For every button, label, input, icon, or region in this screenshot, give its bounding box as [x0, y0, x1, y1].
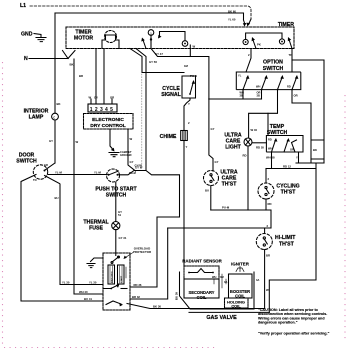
svg-text:GY: GY — [215, 160, 219, 164]
option switch contact b — [262, 78, 267, 90]
svg-text:BK 60: BK 60 — [228, 10, 236, 14]
svg-text:OPTION: OPTION — [263, 60, 283, 66]
motor centrifugal switch — [104, 285, 118, 289]
svg-text:dangerous operation.": dangerous operation." — [258, 321, 298, 325]
motor main winding — [108, 265, 115, 284]
svg-text:BU 39: BU 39 — [175, 292, 179, 300]
wire ultra care light to temp switch — [252, 142, 266, 144]
svg-text:OR: OR — [110, 96, 114, 100]
thermostat cycling — [258, 183, 274, 199]
svg-text:C: C — [53, 115, 55, 119]
svg-text:YL-M: YL-M — [55, 171, 63, 175]
thermostat hi-limit — [256, 234, 272, 250]
svg-text:BR 32: BR 32 — [132, 295, 140, 299]
svg-text:YL 30: YL 30 — [89, 281, 97, 285]
temp switch contact b — [284, 140, 288, 152]
svg-text:MOTOR: MOTOR — [74, 36, 93, 42]
svg-text:W: W — [193, 45, 196, 49]
wire top horizontal from corner to timer terminal — [55, 13, 244, 20]
wire tee y99 to option switch pin b — [209, 98, 262, 100]
svg-text:W: W — [89, 96, 92, 100]
gas valve outline — [180, 272, 255, 309]
svg-text:3B: 3B — [240, 94, 243, 98]
svg-text:PU-M: PU-M — [222, 206, 230, 210]
wire pins from timer down to control connector — [96, 49, 104, 105]
svg-text:YL 60: YL 60 — [228, 18, 236, 22]
svg-text:SWITCH: SWITCH — [16, 159, 37, 165]
svg-text:WH 40: WH 40 — [79, 290, 88, 294]
svg-text:LAMP: LAMP — [29, 115, 44, 121]
svg-text:TH'ST: TH'ST — [281, 190, 297, 196]
svg-text:N: N — [24, 56, 28, 62]
wire chime down to radiant sensor — [183, 141, 185, 267]
svg-text:3A: 3A — [256, 278, 259, 282]
option switch feed wires from timer — [246, 49, 251, 73]
svg-text:3M: 3M — [220, 275, 224, 279]
timer contact arrow right of terminal 6 — [289, 40, 292, 49]
motor heater contact — [106, 301, 121, 305]
wire from top-left corner to interior lamp and door switch (x55) — [54, 13, 56, 113]
svg-text:RD: RD — [243, 154, 247, 158]
wire hi-limit bottom down right side of gas valve — [264, 250, 266, 309]
wire cycling thermostat top — [265, 169, 267, 184]
wire option pin c to ultra care light and temp switch — [249, 90, 278, 138]
wire BK36 motor to gas valve bottom — [127, 304, 265, 309]
wire door switch to push-to-start (y175) — [48, 174, 107, 176]
svg-text:WH: WH — [268, 147, 272, 151]
svg-text:IGNITER: IGNITER — [231, 262, 250, 267]
wire down to igniter feed x316 — [269, 163, 316, 312]
svg-text:FUSE: FUSE — [89, 226, 103, 232]
wire L1 bus (dashed, top) — [30, 6, 251, 19]
svg-text:RD: RD — [268, 138, 272, 142]
lamp interior lamp — [52, 113, 59, 120]
svg-text:BK: BK — [70, 63, 74, 67]
wire cycle signal to chime — [184, 98, 190, 131]
svg-text:PK-B: PK-B — [190, 74, 197, 78]
svg-text:W: W — [266, 288, 269, 292]
svg-text:L1: L1 — [20, 3, 26, 9]
motor assembly dashed box — [103, 253, 130, 310]
svg-text:TN: TN — [33, 178, 37, 182]
wire push-start to x180 run with jog — [119, 171, 180, 288]
timer bridge wire between terminals 5 and 6 — [246, 33, 282, 39]
wire lamp to door switch — [54, 120, 56, 163]
wire temp switch pin down right — [298, 152, 300, 163]
svg-text:TH'ST: TH'ST — [279, 242, 295, 248]
option switch contact a — [243, 78, 248, 90]
svg-text:BR: BR — [79, 74, 83, 78]
svg-text:W: W — [76, 140, 79, 144]
svg-text:PROTECTOR: PROTECTOR — [133, 250, 152, 254]
svg-text:YL: YL — [238, 74, 242, 78]
junction dot below terminal 1 — [150, 38, 152, 40]
svg-text:GY 47: GY 47 — [155, 52, 163, 56]
svg-text:LIGHT: LIGHT — [225, 145, 241, 151]
coil secondary — [184, 279, 219, 298]
svg-text:YL 30: YL 30 — [62, 281, 70, 285]
svg-text:WH 38: WH 38 — [266, 156, 275, 160]
svg-text:TEMP: TEMP — [270, 124, 285, 130]
svg-text:RD 36: RD 36 — [134, 283, 142, 287]
svg-text:MAIN WDG: MAIN WDG — [111, 271, 114, 283]
svg-text:DRY CONTROL: DRY CONTROL — [90, 123, 126, 129]
wire x167.7 down to motor BR32 — [130, 228, 168, 299]
wire right bus y163 — [296, 162, 324, 164]
svg-text:GY/W: GY/W — [135, 164, 143, 168]
svg-text:BU: BU — [205, 189, 209, 193]
svg-text:RD: RD — [287, 85, 291, 89]
svg-text:1M: 1M — [184, 64, 189, 68]
temp switch contact c — [292, 140, 297, 152]
timer cam bridge contact to terminal 3 — [160, 32, 186, 41]
svg-text:RD: RD — [268, 202, 272, 206]
svg-text:BU: BU — [55, 196, 59, 200]
svg-text:GY: GY — [49, 139, 53, 143]
wire gas valve lower bus — [189, 311, 269, 313]
svg-text:TIMER: TIMER — [278, 22, 294, 28]
wire RD36 into motor — [130, 286, 157, 288]
svg-text:12345: 12345 — [90, 107, 115, 113]
timer terminal 5 (circled) with bridge — [243, 39, 248, 44]
svg-text:RD 12: RD 12 — [283, 164, 291, 168]
ground cabinet ground symbol — [109, 153, 119, 157]
coil booster box — [229, 274, 253, 298]
timer terminal 3 (circled) — [182, 41, 188, 47]
wire hi-limit top — [264, 228, 266, 234]
connector 1 2 3 4 5 — [88, 104, 117, 112]
motor ground — [91, 258, 104, 262]
svg-text:CHIME: CHIME — [160, 134, 177, 140]
svg-text:W: W — [130, 137, 133, 141]
svg-text:TH'ST: TH'ST — [222, 182, 238, 188]
timer contact arrow right of terminal 5 — [253, 40, 256, 49]
svg-text:GY 31: GY 31 — [119, 236, 127, 240]
wire ultra care thermostat bottom — [210, 186, 212, 211]
wire N to timer motor junction — [29, 51, 75, 59]
option switch contact d — [292, 78, 297, 90]
svg-text:GND: GND — [21, 32, 33, 38]
svg-text:COIL: COIL — [197, 295, 207, 300]
junction block right of temp switch — [311, 140, 324, 159]
svg-text:WH: WH — [256, 85, 260, 89]
wire x146 from timer to push-start jog — [136, 49, 146, 171]
thermostat ultra care — [204, 171, 219, 186]
wire bus y210 PU-M — [211, 210, 271, 228]
overload protector contact — [112, 257, 119, 263]
contact arrow from L1 into timer terminal — [249, 19, 252, 25]
svg-text:OR: OR — [294, 94, 298, 98]
wire GY47 from junction 1 to cycle signal feed — [151, 41, 209, 99]
svg-text:RD-M: RD-M — [129, 171, 136, 175]
timer motor coil symbol — [105, 31, 117, 43]
svg-text:COIL: COIL — [231, 304, 241, 309]
wire option pin b stub — [261, 90, 263, 99]
svg-text:"Verify proper operation after: "Verify proper operation after servicing… — [258, 332, 330, 336]
wire door switch to left bottom run (x21) — [21, 175, 103, 302]
svg-text:GAS VALVE: GAS VALVE — [206, 315, 237, 321]
svg-text:BK 36: BK 36 — [153, 304, 161, 308]
wire BK from N junction down left side to motor (x74) — [74, 59, 103, 294]
wire from control to cabinet ground — [110, 129, 113, 150]
svg-text:W 40: W 40 — [251, 128, 258, 132]
timer terminal 1 (circled) — [148, 30, 154, 36]
temp switch contact a — [272, 140, 276, 152]
svg-text:Y: Y — [188, 102, 190, 106]
wire ultra care light down to y210 — [247, 146, 249, 210]
svg-text:GY: GY — [94, 96, 98, 100]
svg-text:3A: 3A — [224, 280, 227, 284]
option switch contact c — [278, 78, 283, 90]
coil pin stubs and labels — [214, 274, 226, 288]
wire RD12 bus y168.5 — [266, 168, 316, 170]
svg-text:SWITCH: SWITCH — [263, 66, 284, 72]
svg-text:RADIANT SENSOR: RADIANT SENSOR — [182, 259, 222, 264]
wire door switch lower contact down (x60) — [45, 176, 104, 285]
electronic dry control box — [84, 114, 134, 130]
svg-text:BU 41: BU 41 — [84, 297, 92, 301]
svg-text:Y: Y — [186, 145, 188, 149]
svg-text:HI-LIMIT: HI-LIMIT — [275, 235, 296, 241]
svg-text:ELECTRONIC: ELECTRONIC — [92, 117, 124, 123]
wire option pin a to ultra care light — [242, 90, 244, 99]
wire temp switch pin down WH38 — [271, 152, 273, 169]
radiant sensor contact — [189, 269, 213, 273]
svg-text:START: START — [120, 275, 123, 283]
svg-text:51: 51 — [118, 213, 122, 217]
timer assembly dashed box — [66, 27, 294, 49]
svg-text:RD 55: RD 55 — [256, 146, 264, 150]
wire option pin d to x311 run — [292, 90, 311, 163]
svg-text:GY: GY — [211, 127, 215, 131]
contact arrow into timer terminal 4 — [244, 20, 245, 24]
wire cycling thermostat bottom to y210 — [265, 199, 267, 210]
svg-text:Y: Y — [296, 156, 298, 160]
wire thermal fuse branch from push-start down to motor — [115, 182, 117, 253]
svg-text:YL-M: YL-M — [94, 171, 102, 175]
wire timer to ultra care thermostat (x208.5) — [209, 99, 213, 171]
wire bus y228 from motor to hi-limit — [168, 227, 271, 229]
svg-text:GY: GY — [130, 160, 134, 164]
svg-text:BR: BR — [266, 254, 270, 258]
wire ghost dashed x141.8 — [141, 74, 143, 165]
timer terminal 6 (circled) — [279, 39, 284, 44]
switch cycle signal — [182, 76, 196, 98]
svg-text:WH: WH — [212, 275, 216, 279]
svg-text:3B: 3B — [257, 94, 260, 98]
svg-text:PK: PK — [257, 43, 261, 47]
svg-text:SIGNAL: SIGNAL — [161, 92, 181, 98]
svg-text:BK: BK — [57, 102, 61, 106]
motor start winding — [118, 265, 125, 284]
svg-text:TP: TP — [289, 53, 293, 57]
svg-text:BK: BK — [313, 148, 317, 152]
wire y73 cycle signal feed — [130, 49, 184, 73]
svg-text:GY 56: GY 56 — [149, 60, 157, 64]
wire timer right to x324 run — [292, 60, 324, 163]
svg-text:GR: GR — [44, 163, 48, 167]
wire from control pin 5 to push-start wire — [128, 129, 136, 171]
svg-text:GROUND: GROUND — [120, 153, 132, 157]
switch push to start — [107, 169, 120, 182]
svg-text:OR: OR — [290, 148, 294, 152]
coil holding dashed box — [225, 298, 249, 308]
wire terminal 3 down to GY47 bus — [189, 45, 191, 57]
timer contact arrow (cam 1 left) — [143, 40, 146, 49]
